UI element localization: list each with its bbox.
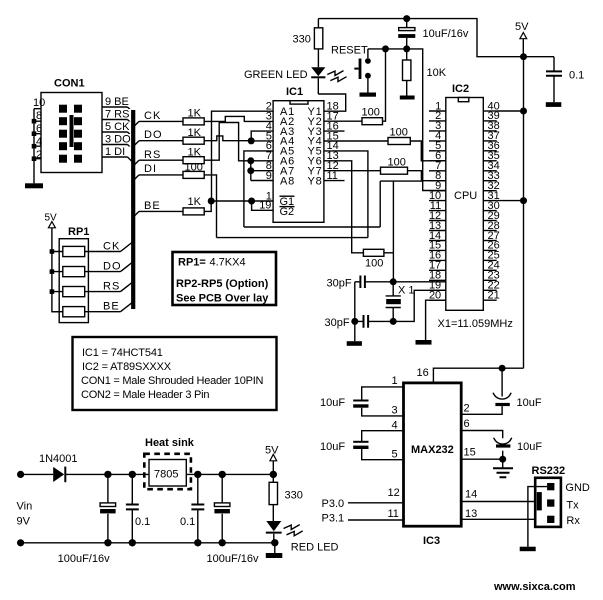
svg-text:16: 16 <box>417 367 429 379</box>
switch RESET <box>367 49 369 58</box>
wire channel L2 <box>217 237 368 239</box>
svg-text:10uF: 10uF <box>517 441 542 453</box>
RP1 body <box>59 239 88 323</box>
svg-text:DO: DO <box>144 129 163 141</box>
note box RP1 value <box>173 252 277 305</box>
wire pin8 row <box>251 161 273 171</box>
svg-text:RS: RS <box>144 149 161 161</box>
IC1 notch <box>290 101 308 104</box>
svg-text:MAX232: MAX232 <box>411 444 454 456</box>
IC1 pin numbers left <box>259 101 272 212</box>
svg-text:IC3: IC3 <box>423 535 440 547</box>
junction dot A3/A4 <box>248 137 255 144</box>
wire DI row <box>139 174 183 176</box>
svg-text:IC1: IC1 <box>286 86 303 98</box>
wire Y4 pin15 to resistor <box>324 140 388 142</box>
wire GND pin <box>528 487 547 547</box>
driver IC3 MAX232 body <box>404 383 462 526</box>
ground red led <box>274 543 276 553</box>
wire A3 tie <box>251 131 273 141</box>
CON1 right pin labels <box>104 96 134 158</box>
svg-text:P3.1: P3.1 <box>322 513 345 525</box>
svg-text:10uF/16v: 10uF/16v <box>423 28 469 40</box>
wire CK to pin3 with hop <box>204 116 273 121</box>
regulator 7805 <box>149 460 186 487</box>
svg-text:X 1: X 1 <box>398 285 415 297</box>
junction dot pin8 <box>247 167 254 174</box>
svg-text:1N4001: 1N4001 <box>39 453 78 465</box>
wire RS detour <box>204 123 273 161</box>
svg-text:3 DO: 3 DO <box>105 134 131 146</box>
wire crystal feed vertical <box>392 181 394 282</box>
wire G2 tie <box>252 201 274 210</box>
svg-text:9V: 9V <box>17 516 31 528</box>
junction dot pin15 <box>499 456 506 463</box>
wire pin6 row from channel L1 <box>244 151 273 227</box>
svg-text:100: 100 <box>390 127 408 139</box>
svg-text:5 CK: 5 CK <box>105 121 130 133</box>
svg-text:CPU: CPU <box>454 190 477 202</box>
capacitor 0.1 output <box>197 474 199 542</box>
wire Y6 pin13 down to 100 <box>324 161 364 253</box>
svg-text:Tx: Tx <box>566 500 579 512</box>
svg-text:21: 21 <box>488 290 500 302</box>
ground 10K <box>400 96 415 100</box>
wire BE to G1 <box>204 201 273 211</box>
svg-text:6: 6 <box>464 418 470 430</box>
bus exit slash BE <box>133 211 139 217</box>
svg-text:CK: CK <box>103 241 120 253</box>
IC2 right pin stubs 40-21 <box>483 111 496 300</box>
svg-text:4: 4 <box>392 420 398 432</box>
svg-text:3: 3 <box>392 405 398 417</box>
svg-text:0.1: 0.1 <box>569 70 584 82</box>
wire pin31 to 5V rail <box>497 200 524 202</box>
junction dot 30pF lower left <box>351 318 358 325</box>
junction dot top rail <box>403 15 410 22</box>
junction dot pin16/5V <box>499 365 506 372</box>
svg-text:0.1: 0.1 <box>180 516 195 528</box>
bus exit slash CK <box>133 121 139 127</box>
svg-text:GREEN LED: GREEN LED <box>244 69 308 81</box>
wire pin20 to ground <box>426 300 446 340</box>
junction dot crystal bottom <box>390 318 397 325</box>
ground pin20 <box>416 340 432 345</box>
svg-text:10uF: 10uF <box>320 441 345 453</box>
wire pin18 row to crystal <box>393 281 446 283</box>
svg-text:100: 100 <box>365 258 383 270</box>
svg-text:CON2 = Male Header 3 Pin: CON2 = Male Header 3 Pin <box>81 389 209 401</box>
svg-text:2: 2 <box>464 403 470 415</box>
junction dots bottom rail <box>104 539 111 546</box>
IC1 pin numbers right <box>327 101 339 182</box>
svg-text:12: 12 <box>388 487 400 499</box>
wire Y3 pin16 stub <box>324 130 345 132</box>
svg-text:RP1: RP1 <box>68 226 89 238</box>
svg-text:0.1: 0.1 <box>135 516 150 528</box>
ground RS232 <box>520 547 536 552</box>
svg-text:9: 9 <box>266 170 272 182</box>
svg-text:30pF: 30pF <box>327 278 352 290</box>
CON1 left rail <box>33 109 35 184</box>
svg-text:A8: A8 <box>280 175 295 187</box>
svg-text:7805: 7805 <box>154 469 178 481</box>
svg-text:RS232: RS232 <box>532 465 566 477</box>
svg-text:5V: 5V <box>45 213 58 224</box>
svg-text:10uF: 10uF <box>320 397 345 409</box>
svg-text:IC1 = 74HCT541: IC1 = 74HCT541 <box>82 347 163 359</box>
ground crystal caps <box>347 341 362 346</box>
wire Y7 pin12 to resistor <box>324 170 381 172</box>
IC2 right pin numbers <box>488 100 500 301</box>
svg-text:DI: DI <box>144 163 157 175</box>
junction dots 5V rail <box>520 53 527 60</box>
wire psu mid rail <box>186 473 273 475</box>
IC2 left pin numbers <box>429 100 441 301</box>
junction dot BE/G1 <box>208 198 215 205</box>
CON1 bus entry slashes <box>128 107 134 163</box>
svg-text:5: 5 <box>392 449 398 461</box>
ground CON1 <box>25 183 43 188</box>
svg-text:10uF: 10uF <box>517 397 542 409</box>
IC2 body <box>446 98 484 311</box>
svg-text:10K: 10K <box>427 67 447 79</box>
wire Y1 pin18 to LED <box>318 94 346 111</box>
svg-text:RP2-RP5 (Option): RP2-RP5 (Option) <box>176 278 269 290</box>
svg-text:1K: 1K <box>188 196 202 208</box>
svg-text:Heat sink: Heat sink <box>145 437 195 449</box>
resistor 100 (Y6 feedback) <box>363 249 384 256</box>
svg-text:9 BE: 9 BE <box>105 96 129 108</box>
wire A1 vertical (BE to pin2) <box>212 111 274 201</box>
connector CON1 key bar <box>70 115 74 147</box>
svg-text:P3.0: P3.0 <box>322 498 345 510</box>
svg-text:100: 100 <box>362 107 380 119</box>
svg-text:RP1=: RP1= <box>178 257 206 269</box>
svg-text:4.7KX4: 4.7KX4 <box>210 257 246 269</box>
heat sink dashed box <box>144 454 191 489</box>
CON1 left wires <box>34 109 41 159</box>
RS232 pin pads <box>547 483 554 490</box>
junction dot reset-cap <box>403 45 410 52</box>
svg-text:1: 1 <box>392 375 398 387</box>
IC2 notch <box>458 98 469 102</box>
svg-text:7 RS: 7 RS <box>105 109 129 121</box>
terminal Vin+ <box>17 471 24 478</box>
svg-text:330: 330 <box>285 490 303 502</box>
svg-text:DO: DO <box>103 261 122 273</box>
IC1 Y labels <box>308 106 323 187</box>
bus exit slash DI <box>133 175 139 181</box>
junction dots top rail <box>104 471 111 478</box>
junction dots RP1 <box>50 249 55 294</box>
svg-text:Rx: Rx <box>566 515 580 527</box>
ground earth pin15 <box>502 459 504 468</box>
RP1 bus slashes <box>121 242 134 312</box>
wire DI down to channel L2 <box>204 175 216 238</box>
svg-text:IC2 = AT89SXXXX: IC2 = AT89SXXXX <box>82 361 172 373</box>
svg-text:10: 10 <box>33 97 45 109</box>
svg-text:G2: G2 <box>280 206 295 218</box>
wire CK row <box>139 120 183 122</box>
svg-text:www.sixca.com: www.sixca.com <box>493 581 576 593</box>
svg-text:CK: CK <box>144 110 161 122</box>
svg-text:BE: BE <box>144 200 161 212</box>
svg-text:RESET: RESET <box>331 45 368 57</box>
wire Y5 pin14 down to L2 <box>324 151 368 238</box>
svg-text:100uF/16v: 100uF/16v <box>207 553 259 565</box>
wire top rail psu <box>21 473 149 475</box>
connector RS232 body <box>535 478 561 527</box>
wire channel y181 <box>380 181 423 227</box>
RP1 rail <box>52 228 59 312</box>
svg-text:Y8: Y8 <box>308 175 323 187</box>
ground reset <box>360 93 377 97</box>
svg-text:See PCB Over lay: See PCB Over lay <box>176 293 269 305</box>
junction dot crystal top <box>390 278 397 285</box>
wire DO row <box>139 140 183 142</box>
RP1 resistors <box>63 246 85 256</box>
wire pin40 to 5V rail <box>497 110 524 112</box>
svg-text:Vin: Vin <box>17 501 33 513</box>
wire reset node <box>368 49 446 191</box>
svg-text:5V: 5V <box>265 445 279 457</box>
svg-text:1 DI: 1 DI <box>105 146 125 158</box>
diode GREEN LED <box>311 67 325 76</box>
svg-text:CON1 = Male Shrouded Header 10: CON1 = Male Shrouded Header 10PIN <box>81 375 264 387</box>
svg-text:RS: RS <box>103 281 120 293</box>
svg-text:19: 19 <box>259 200 271 212</box>
wire BE row <box>139 210 183 212</box>
terminal Vin- <box>17 539 24 546</box>
svg-text:330: 330 <box>293 34 311 46</box>
svg-text:CON1: CON1 <box>54 78 85 90</box>
svg-text:15: 15 <box>464 447 476 459</box>
svg-text:RED LED: RED LED <box>291 542 339 554</box>
LED light arrows <box>327 71 346 82</box>
wire channel L1 <box>244 226 380 228</box>
svg-text:IC2: IC2 <box>452 83 469 95</box>
svg-text:100uF/16v: 100uF/16v <box>58 553 110 565</box>
RED LED light arrows <box>284 525 303 536</box>
IC2 left pin stubs 1-20 <box>429 111 446 300</box>
svg-text:14: 14 <box>465 489 477 501</box>
RP1 right wires <box>85 252 121 312</box>
connector CON1 body <box>41 93 102 173</box>
wire RS row <box>139 159 183 161</box>
bus exit slash DO <box>133 141 139 147</box>
diode RED LED <box>266 521 281 531</box>
svg-text:30pF: 30pF <box>325 317 350 329</box>
IC1 body <box>273 101 324 223</box>
junction CON1 rail dots <box>32 119 37 161</box>
wire pin9 row <box>251 171 273 181</box>
capacitor 0.1 input <box>131 474 133 542</box>
wire Y8 pin11 stub <box>324 180 345 182</box>
svg-text:GND: GND <box>565 482 590 494</box>
wire 30pF left rail <box>354 282 356 341</box>
wire 5V vertical rail <box>523 57 525 369</box>
junction dot reset-100 <box>382 45 389 52</box>
svg-text:BE: BE <box>103 301 120 313</box>
svg-text:11: 11 <box>388 508 399 520</box>
bus exit slash RS <box>133 160 139 166</box>
svg-text:X1=11.059MHz: X1=11.059MHz <box>438 318 513 330</box>
note box parts list <box>73 337 277 410</box>
connector CON1 pin pads <box>59 105 82 163</box>
CON1 right wires to bus <box>102 107 128 157</box>
wire bottom rail psu <box>21 542 275 544</box>
svg-text:8: 8 <box>36 110 42 122</box>
wire top rail <box>318 19 554 57</box>
wire DO row to A4 with hop over RS vertical <box>204 136 273 141</box>
capacitor 100uF/16v input <box>107 474 109 542</box>
bus (thick vertical) <box>131 110 135 309</box>
RS232 key bar <box>537 492 542 510</box>
capacitor 100uF/16v output <box>221 474 223 542</box>
junction dot G1/G2 <box>248 198 255 205</box>
ground 0.1 <box>546 102 562 107</box>
junction dot pin7 <box>247 157 254 164</box>
svg-text:13: 13 <box>465 508 477 520</box>
RP1 left wires <box>52 252 63 312</box>
IC1 A labels <box>280 106 295 187</box>
svg-text:5V: 5V <box>515 21 529 33</box>
wire Y2 pin17 to resistor <box>324 120 362 122</box>
wire crystal bottom to pin19 <box>393 290 446 321</box>
